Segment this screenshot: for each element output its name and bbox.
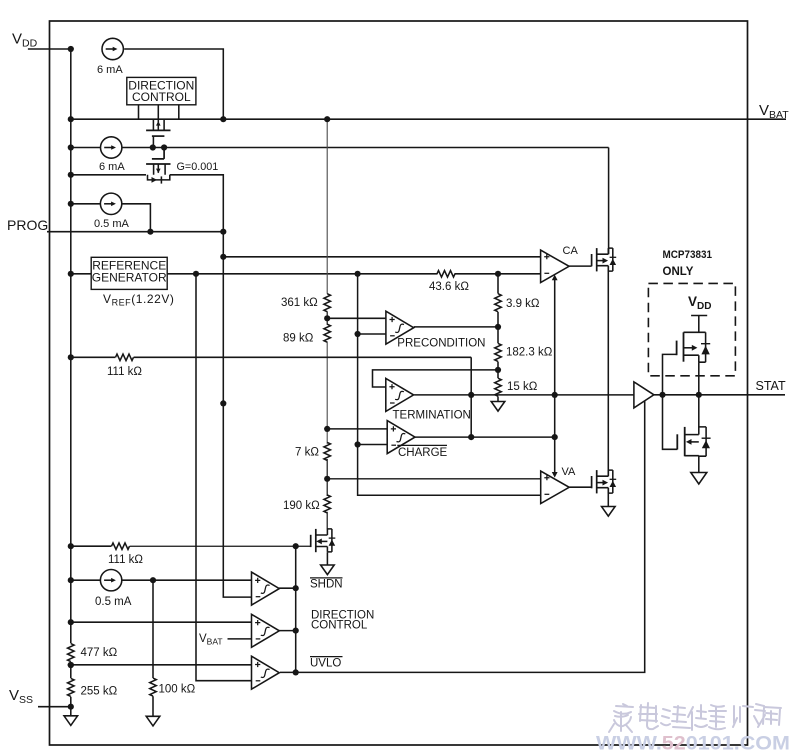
svg-text:VSS: VSS bbox=[9, 687, 33, 706]
wire UVLO output run to buffer enable bbox=[280, 400, 645, 672]
wire termination column vertical bbox=[470, 357, 472, 437]
REFERENCE GENERATOR block bbox=[91, 257, 167, 289]
op-amp CA bbox=[541, 250, 570, 283]
svg-text:255 kΩ: 255 kΩ bbox=[81, 686, 118, 698]
svg-text:182.3 kΩ: 182.3 kΩ bbox=[506, 347, 553, 359]
resistor 3.9k bbox=[495, 294, 501, 312]
node drive column bbox=[552, 392, 558, 398]
wire VA output to gate bbox=[569, 486, 591, 488]
wire 7k down through 190k to SHDN fet bbox=[326, 459, 328, 496]
node termination column bbox=[468, 392, 474, 398]
wire VREF output line bbox=[167, 273, 437, 275]
svg-text:CONTROL: CONTROL bbox=[311, 620, 368, 632]
wire VBAT to DIRECTION minus bbox=[228, 638, 252, 640]
svg-text:WWW.520101.COM: WWW.520101.COM bbox=[596, 733, 790, 753]
current source I1 6mA bbox=[102, 38, 123, 59]
svg-text:15 kΩ: 15 kΩ bbox=[507, 381, 538, 393]
svg-text:SHDN: SHDN bbox=[310, 579, 343, 591]
node PRECOND output on ladder bbox=[495, 324, 501, 330]
comparator PRECONDITION bbox=[386, 311, 414, 344]
wire VREF rail down to VA minus bbox=[358, 274, 541, 496]
wire DIRECTION plus input bbox=[71, 621, 252, 623]
wire CA mosfet source to VA mosfet drain bbox=[607, 266, 609, 476]
svg-text:TERMINATION: TERMINATION bbox=[393, 410, 471, 422]
wire 0.5mA source 2 to SHDN plus bbox=[122, 579, 251, 581]
svg-text:VBAT: VBAT bbox=[759, 102, 789, 121]
wire VREF to rail bbox=[71, 273, 91, 275]
svg-text:0.5 mA: 0.5 mA bbox=[95, 596, 132, 608]
svg-text:6 mA: 6 mA bbox=[97, 64, 123, 76]
svg-text:STAT: STAT bbox=[756, 379, 786, 393]
resistor 43.6k bbox=[437, 271, 455, 277]
svg-text:6 mA: 6 mA bbox=[99, 161, 125, 173]
transistor STAT PMOS bbox=[677, 332, 711, 362]
resistor 89k bbox=[324, 324, 330, 342]
node VBAT rail left bbox=[68, 116, 74, 122]
wire CHARGE minus input bbox=[358, 444, 388, 446]
resistor 361k bbox=[324, 294, 330, 312]
MCP73831 dashed box bbox=[648, 283, 735, 375]
wire TERMINATION output to status buffer bbox=[414, 394, 634, 396]
wire CHARGE output bbox=[414, 436, 555, 438]
wire NMOS source to ground bbox=[698, 456, 700, 472]
comparator CHARGE bbox=[387, 421, 415, 454]
comparator DIRECTION CONTROL bbox=[252, 614, 280, 647]
node CHARGE+ tap bbox=[324, 426, 330, 432]
svg-text:GENERATOR: GENERATOR bbox=[92, 271, 167, 285]
wire CA output to gate bbox=[569, 265, 592, 267]
wire sense FET output to PROG rail bbox=[170, 175, 224, 232]
wire PRECONDITION plus input bbox=[327, 317, 386, 319]
wire VDD stub in dashed box bbox=[691, 316, 707, 333]
node PRECOND- tap bbox=[355, 331, 361, 337]
DIRECTION CONTROL block bbox=[127, 77, 196, 119]
wire 361k to divider node bbox=[326, 312, 328, 325]
node PROG junctions bbox=[147, 229, 153, 235]
svg-text:477 kΩ: 477 kΩ bbox=[81, 647, 118, 659]
wire VA mosfet source to ground bbox=[607, 488, 609, 507]
wire PROG pin bbox=[47, 231, 223, 233]
node CHARGE- tap bbox=[355, 441, 361, 447]
wire PMOS source to STAT node bbox=[698, 362, 700, 395]
svg-text:VREF(1.22V): VREF(1.22V) bbox=[103, 292, 174, 308]
comparator UVLO bbox=[252, 656, 280, 689]
comparator TERMINATION bbox=[386, 378, 414, 411]
svg-text:VA: VA bbox=[562, 466, 577, 478]
wire TERMINATION feedback loop bbox=[373, 370, 498, 387]
resistor 7k bbox=[324, 442, 330, 460]
svg-text:ONLY: ONLY bbox=[663, 266, 694, 278]
resistor 477k bbox=[68, 644, 74, 662]
wire NMOS drain to STAT node bbox=[698, 395, 700, 435]
resistor 111k lower bbox=[112, 543, 130, 549]
arrow drive into CA bbox=[552, 275, 558, 281]
svg-text:190 kΩ: 190 kΩ bbox=[283, 500, 320, 512]
wire PRECONDITION minus input bbox=[358, 333, 386, 335]
wire battery divider tap (thin) bbox=[326, 119, 328, 294]
wire stat gate lead down to NMOS bbox=[663, 395, 678, 450]
transistor Q2 sense FET G=0.001 bbox=[146, 148, 170, 184]
svg-text:111 kΩ: 111 kΩ bbox=[108, 554, 143, 566]
svg-text:VDD: VDD bbox=[688, 294, 711, 312]
svg-text:CA: CA bbox=[563, 245, 579, 257]
ground below 15k bbox=[491, 402, 505, 412]
resistor 15k bbox=[495, 378, 501, 396]
node divider 477k/255k bbox=[68, 662, 74, 668]
wire CHARGE plus input bbox=[327, 428, 387, 430]
wire resistor ladder verticals bbox=[497, 274, 499, 294]
node comparator outputs bbox=[293, 543, 299, 549]
node TERM- tap bbox=[220, 400, 226, 406]
svg-text:7 kΩ: 7 kΩ bbox=[295, 447, 319, 459]
resistor 100k bbox=[150, 678, 156, 696]
wire VSS rail ground stem bbox=[70, 707, 72, 716]
wire CA plus input bbox=[223, 256, 540, 258]
arrow drive into VA bbox=[552, 472, 558, 478]
wire left VDD rail bbox=[70, 49, 72, 707]
status buffer triangle bbox=[634, 382, 654, 408]
node VA+ tap bbox=[324, 476, 330, 482]
wire VDD pin bbox=[28, 48, 71, 50]
node divider 361k/89k bbox=[324, 315, 330, 321]
wire 0.5mA source 1 to PROG junction bbox=[122, 204, 150, 232]
wire PRECONDITION output bbox=[414, 326, 498, 328]
wire VBAT rail bbox=[71, 118, 786, 120]
watermark chinese characters bbox=[609, 703, 781, 732]
wire 6mA source 2 rail bbox=[71, 147, 100, 149]
node STAT buffer out bbox=[659, 392, 665, 398]
transistor STAT NMOS bbox=[677, 427, 710, 456]
ground below 100k bbox=[146, 716, 160, 726]
svg-text:43.6 kΩ: 43.6 kΩ bbox=[429, 281, 469, 293]
current source I3 0.5mA bbox=[100, 193, 121, 214]
wire VA plus input bbox=[327, 478, 541, 480]
resistor 182.3k bbox=[495, 343, 501, 361]
svg-text:G=0.001: G=0.001 bbox=[177, 161, 219, 173]
wire stat gate lead up to PMOS bbox=[663, 354, 677, 394]
ground below VA MOSFET bbox=[602, 507, 616, 517]
node VREF line taps bbox=[193, 271, 199, 277]
node 0.5mA/100k bbox=[150, 577, 156, 583]
node sense FET rail bbox=[150, 144, 156, 150]
svg-text:89 kΩ: 89 kΩ bbox=[283, 333, 314, 345]
ground below STAT NMOS bbox=[691, 473, 707, 485]
transistor SHDN MOSFET bbox=[311, 529, 336, 552]
WATERMARK bbox=[596, 703, 790, 753]
node VDD rail top bbox=[68, 46, 74, 52]
wire STAT output bbox=[654, 394, 785, 396]
ground below SHDN MOSFET bbox=[321, 552, 335, 574]
wire drive column to CA and VA bbox=[554, 280, 556, 473]
comparator SHDN bbox=[252, 572, 280, 605]
svg-text:CONTROL: CONTROL bbox=[132, 90, 191, 104]
wire comparator output rail bbox=[295, 546, 297, 672]
current source I4 0.5mA bbox=[100, 570, 121, 591]
svg-text:PRECONDITION: PRECONDITION bbox=[397, 338, 485, 350]
node 182.3k/15k bbox=[495, 367, 501, 373]
wire DIRECTION output bbox=[279, 630, 296, 632]
wire 89k down to CHARGE plus node (thin) bbox=[326, 342, 328, 444]
svg-text:CHARGE: CHARGE bbox=[398, 447, 448, 459]
resistor 255k bbox=[68, 678, 74, 696]
svg-text:MCP73831: MCP73831 bbox=[663, 249, 713, 261]
wire VSS pin bbox=[38, 706, 71, 708]
transistor VA output MOSFET bbox=[592, 470, 617, 493]
svg-text:361 kΩ: 361 kΩ bbox=[281, 297, 318, 309]
node VBAT rail junctions bbox=[220, 116, 226, 122]
wire 6mA source 1 to VBAT rail corner bbox=[124, 49, 223, 119]
svg-text:3.9 kΩ: 3.9 kΩ bbox=[506, 298, 540, 310]
op-amp VA bbox=[541, 471, 570, 504]
wire 111k line to termination column bbox=[71, 356, 116, 358]
wire 0.5mA source 1 left bbox=[71, 203, 100, 205]
resistor 111k upper bbox=[116, 354, 134, 360]
resistor 190k bbox=[324, 495, 330, 513]
wire 100k branch bbox=[152, 580, 154, 678]
svg-text:PROG: PROG bbox=[7, 217, 48, 233]
wire 0.5mA source 2 left bbox=[71, 579, 100, 581]
wire PROG rail down bbox=[223, 232, 251, 597]
wire sense rail down to CA mosfet drain bbox=[608, 148, 610, 255]
svg-text:VDD: VDD bbox=[12, 31, 38, 50]
node CA+ tap bbox=[220, 254, 226, 260]
wire SHDN output bbox=[279, 587, 296, 589]
wire UVLO plus input bbox=[71, 664, 252, 666]
current source I2 6mA bbox=[101, 137, 122, 158]
svg-text:0.5 mA: 0.5 mA bbox=[94, 218, 130, 230]
ground VSS rail bbox=[64, 716, 78, 726]
transistor CA output MOSFET bbox=[592, 248, 617, 271]
wire VREF rail down to UVLO minus bbox=[196, 274, 252, 681]
svg-text:VBAT: VBAT bbox=[199, 633, 223, 647]
svg-text:UVLO: UVLO bbox=[310, 658, 341, 670]
wire sense FET source bbox=[71, 174, 146, 176]
wire 111k shutdown line bbox=[71, 545, 112, 547]
transistor Q1 direction pass FET bbox=[146, 105, 170, 148]
svg-text:111 kΩ: 111 kΩ bbox=[107, 366, 142, 378]
svg-text:100 kΩ: 100 kΩ bbox=[159, 684, 196, 696]
